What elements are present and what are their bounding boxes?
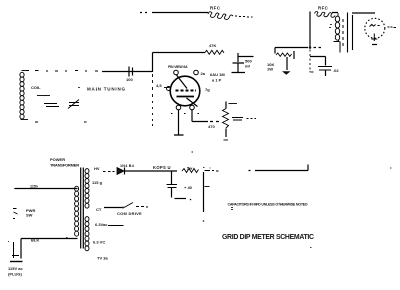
capacitor C7 branch [310, 57, 339, 77]
switch S1 power [13, 208, 35, 219]
wire tank top (faint dashed) [26, 70, 98, 73]
tap 6.3V [95, 222, 124, 227]
variable capacitor C3 [44, 104, 59, 107]
svg-text:115V ac: 115V ac [8, 266, 23, 271]
svg-text:BLK: BLK [31, 238, 39, 243]
dotted vertical (tank right side, faded) [152, 74, 154, 126]
svg-text:6.3Vac: 6.3Vac [95, 222, 108, 227]
tube pin 1 (top left) [174, 70, 179, 75]
resistor R2 (cathode) vertical [223, 102, 238, 141]
transformer T2 secondary line [348, 13, 353, 53]
svg-text:CT: CT [96, 207, 102, 212]
resistor R3 [267, 48, 294, 72]
diode D1 [117, 164, 135, 175]
R2 value marks [232, 118, 256, 121]
wire grid lead [102, 71, 152, 73]
tube pin 4 (bottom right) [190, 105, 195, 110]
dotted HV lead [103, 171, 115, 173]
svg-text:RFC: RFC [210, 6, 221, 11]
tank coil L1 (plug-in coil) [20, 71, 29, 120]
tube V1 envelope [170, 76, 200, 106]
svg-text:mf: mf [245, 64, 251, 69]
cathode bar terminal [174, 134, 184, 136]
svg-text:(PLUG): (PLUG) [8, 272, 22, 277]
resistor R1 grid leak [205, 43, 224, 54]
svg-text:TV 3a: TV 3a [97, 256, 108, 261]
svg-text:+ 40: + 40 [184, 185, 193, 190]
svg-text:115 g: 115 g [92, 180, 103, 185]
transformer T2 primary winding [329, 13, 340, 53]
tube grid (dashed) [176, 90, 196, 92]
svg-text:HV: HV [94, 166, 100, 171]
tank bottom faded dots [35, 121, 87, 123]
B+ vertical line [309, 12, 311, 48]
tube plate diagonal [177, 75, 188, 89]
svg-text:115v: 115v [30, 185, 39, 189]
tube type label [210, 72, 225, 83]
switch S2 [117, 203, 148, 217]
B+ bus wire [249, 165, 309, 171]
svg-text:2a: 2a [201, 71, 206, 76]
transformer T1 primary winding [75, 186, 79, 236]
tube pin 3 (bottom left) [176, 105, 181, 110]
svg-text:GRID DIP METER SCHEMATIC: GRID DIP METER SCHEMATIC [222, 234, 314, 241]
svg-text:6AU 1M: 6AU 1M [210, 72, 225, 77]
svg-text:7g: 7g [205, 87, 210, 92]
wire grid-top to RFC1 [140, 12, 208, 14]
resistor R4 filter [182, 166, 199, 191]
meter M1 [365, 18, 385, 44]
node junction dot [309, 46, 312, 49]
svg-text:KOPS U: KOPS U [153, 165, 171, 170]
tube left pin stub [156, 83, 171, 91]
wire meter top [352, 12, 375, 14]
capacitor C6 filter [203, 171, 233, 222]
svg-text:POWER: POWER [50, 157, 65, 162]
tube pin 7 (top right) [194, 70, 199, 75]
capacitor C2 with lead [232, 53, 254, 73]
wire rectifier output [125, 170, 177, 172]
tube cathode bar [177, 96, 195, 98]
tube lower diagonal [187, 98, 198, 107]
choke RFC1 [208, 6, 253, 20]
capacitor C5 filter [167, 172, 192, 201]
wire to grid resistor [153, 52, 206, 54]
AC plug [8, 242, 23, 277]
svg-text:6.3 VC: 6.3 VC [93, 240, 105, 245]
transformer T1 core [81, 168, 84, 249]
svg-text:1N4 B4: 1N4 B4 [120, 164, 135, 168]
svg-text:CAPACITORS IN MFD UNLESS OTHER: CAPACITORS IN MFD UNLESS OTHERWISE NOTED [228, 202, 308, 206]
speck below [192, 151, 194, 153]
node corner at grid [152, 53, 154, 73]
svg-text:1W: 1W [267, 67, 273, 72]
svg-text:a 1 P: a 1 P [212, 78, 222, 83]
svg-text:RFC: RFC [318, 6, 329, 11]
choke RFC2 [315, 6, 339, 18]
transformer T1 heater windings [85, 217, 89, 251]
transformer T2 core [342, 19, 344, 46]
wire plate branch [275, 47, 321, 49]
B+ dotted continuation [309, 50, 311, 73]
ground GND1 [282, 71, 291, 75]
cathode lead down [178, 110, 180, 135]
transformer T1 secondary HV winding [85, 169, 89, 209]
grid return wire [192, 110, 219, 122]
wire primary bottom [21, 239, 78, 259]
wire coil tap [37, 95, 50, 97]
svg-text:47K: 47K [209, 43, 216, 48]
svg-text:.02: .02 [333, 68, 339, 73]
variable capacitor C4 [68, 100, 79, 109]
svg-text:SW: SW [26, 213, 33, 218]
svg-text:TRANSFORMER: TRANSFORMER [50, 163, 79, 168]
CT wire [104, 207, 122, 209]
svg-text:4,5: 4,5 [156, 83, 162, 88]
capacitor C1 (grid cap, series) [126, 67, 133, 83]
svg-text:COIL: COIL [31, 85, 41, 90]
power transformer label [50, 157, 79, 168]
svg-text:PIN VIEW 6A: PIN VIEW 6A [168, 65, 188, 69]
svg-text:MAIN TUNING: MAIN TUNING [87, 86, 126, 91]
svg-text:100: 100 [126, 77, 133, 82]
meter label [388, 26, 397, 29]
svg-text:470: 470 [208, 124, 215, 129]
wire primary top [15, 188, 78, 190]
tube pin digits [171, 113, 199, 115]
scan specks [8, 88, 392, 248]
svg-text:COM DRIVE: COM DRIVE [117, 211, 142, 216]
